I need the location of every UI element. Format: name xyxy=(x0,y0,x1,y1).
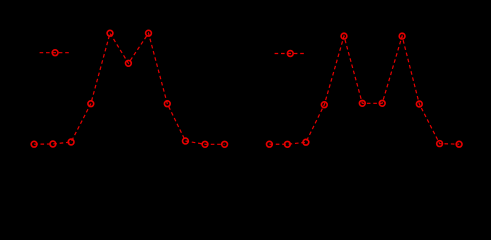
right series dashed line xyxy=(269,36,459,144)
left series markers xyxy=(31,30,227,147)
legend sample marker (left plot) xyxy=(52,50,58,56)
legend sample line (left plot) xyxy=(40,52,72,54)
right series markers xyxy=(267,33,463,147)
left series dashed line xyxy=(34,33,225,144)
legend sample marker (right plot) xyxy=(287,51,293,57)
legend sample line (right plot) xyxy=(275,53,307,55)
